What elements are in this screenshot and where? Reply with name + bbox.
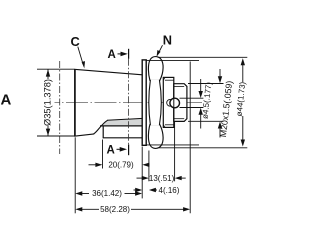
- dim 36(1.42): [74, 137, 76, 213]
- svg-text:Ø35(1.378): Ø35(1.378): [42, 79, 52, 126]
- fillet curve cone to neck: [94, 120, 108, 134]
- neck ridge line: [107, 118, 142, 120]
- svg-text:A: A: [108, 49, 116, 61]
- cross hole circles: [167, 99, 174, 106]
- svg-text:N: N: [163, 32, 172, 47]
- dim 4(.16): [134, 189, 139, 191]
- flange waist (hub ellipse): [149, 80, 162, 125]
- svg-text:C: C: [71, 34, 80, 49]
- dim 13(.51): [148, 151, 150, 182]
- dim 20(.79): [102, 140, 104, 169]
- svg-text:A: A: [1, 92, 12, 109]
- dim D35: extension lines: [37, 68, 75, 70]
- gray neck band: [102, 119, 143, 126]
- dim D35 vertical line + arrows: [47, 69, 49, 79]
- flange top lobe: [148, 57, 163, 81]
- hex boss behind flange: [163, 77, 174, 127]
- cone bottom edge: [74, 134, 94, 136]
- thread minor dia lines: [174, 85, 184, 87]
- dim d4.5(.177): hole tangent extension lines: [180, 97, 204, 99]
- svg-text:36(1.42): 36(1.42): [92, 189, 122, 198]
- dim 58(2.28): [189, 62, 191, 214]
- flange plate: [142, 60, 146, 145]
- svg-text:A: A: [107, 144, 115, 156]
- svg-text:20(.79): 20(.79): [108, 160, 134, 169]
- threaded stub M20: [174, 84, 187, 122]
- cone top edge: [74, 69, 142, 75]
- neck band bottom line: [100, 125, 142, 127]
- svg-text:58(2.28): 58(2.28): [100, 205, 130, 214]
- svg-text:4(.16): 4(.16): [159, 186, 180, 195]
- section line A-A: [128, 49, 130, 59]
- datum dash-dot line left of cone: [59, 61, 61, 154]
- neck block: [103, 126, 142, 138]
- flange bottom lobe: [148, 125, 163, 149]
- cone body left face: [74, 69, 76, 136]
- svg-text:13(.51): 13(.51): [149, 174, 175, 183]
- dim M20x1.5(.059): stub extension lines: [188, 83, 224, 85]
- dim d44(1.73): flange extension lines: [158, 56, 248, 58]
- centerline (horizontal axis): [55, 102, 205, 104]
